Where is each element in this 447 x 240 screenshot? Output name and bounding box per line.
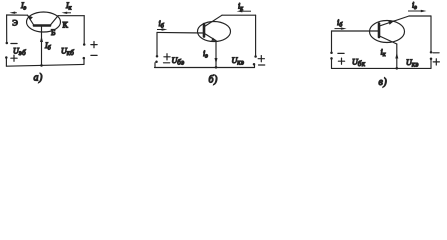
current arrow I_B (right) (335, 27, 347, 29)
wire: top collector wire (222, 14, 256, 16)
current arrow I_E (10, 12, 17, 14)
svg-text:Uбэ: Uбэ (172, 56, 185, 67)
svg-text:iб: iб (159, 19, 165, 30)
plus sign (91, 42, 97, 48)
wire: emitter lead down (215, 41, 217, 68)
terminal node (right lower) (253, 63, 256, 66)
svg-text:а): а) (34, 73, 44, 84)
current arrow I_E (above wire, pointing right) (408, 10, 427, 12)
svg-text:Б: Б (51, 28, 56, 37)
terminal node (right lower) (430, 57, 433, 60)
terminal node (left upper) (6, 42, 9, 45)
wire: top-right collector wire (58, 15, 84, 17)
terminal node (left upper) (156, 55, 159, 58)
wire: left lower stub (154, 63, 156, 68)
terminal node (left lower) (155, 61, 158, 64)
minus sign (11, 43, 17, 45)
wire: top emitter wire (409, 15, 431, 17)
minus sign (433, 52, 439, 54)
wire: left branch down (6, 15, 8, 42)
plus sign (11, 55, 17, 61)
terminal node (right upper) (83, 43, 86, 46)
svg-text:Uкб: Uкб (61, 47, 74, 58)
wire: bottom common-emitter wire (155, 67, 255, 69)
svg-text:Э: Э (12, 18, 18, 28)
minus sign (338, 52, 344, 54)
emitter diagonal with arrowhead (205, 34, 216, 41)
wire: right lower stub (430, 60, 432, 69)
plus sign (164, 54, 170, 60)
terminal node (left lower) (330, 57, 333, 60)
transistor VT (circuit b) body (198, 22, 231, 42)
svg-text:в): в) (379, 77, 388, 88)
wire: base lead down (41, 27, 43, 66)
collector diagonal (205, 15, 223, 26)
svg-text:iб: iб (337, 18, 343, 29)
wire: right branch down (255, 15, 257, 55)
svg-text:Uэб: Uэб (13, 47, 26, 58)
wire: bottom common-base wire (6, 64, 84, 66)
wire: bottom common-collector wire (332, 67, 432, 69)
svg-text:iк: iк (381, 48, 386, 59)
svg-text:Iэ: Iэ (20, 1, 27, 12)
terminal node (right upper) (430, 51, 433, 54)
collector diagonal (380, 36, 397, 44)
current arrow I_K (237, 10, 251, 12)
wire: left lower stub (331, 60, 333, 69)
current arrow I_B (right) (157, 28, 167, 30)
terminal node (left lower) (5, 56, 8, 59)
junction (emitter to bottom wire) (215, 66, 218, 69)
wire: left branch down (331, 31, 333, 52)
terminal node (right lower) (83, 57, 86, 60)
plus sign (433, 59, 439, 65)
svg-text:Uбк: Uбк (352, 58, 366, 69)
current arrow I_K (up) (395, 53, 398, 59)
svg-text:Uкэ: Uкэ (406, 58, 419, 69)
transistor VT (circuit v) body (370, 21, 405, 43)
wire: right lower stub (83, 59, 85, 64)
svg-text:К: К (63, 21, 69, 30)
svg-text:iэ: iэ (203, 49, 208, 60)
transistor VT (circuit a) body (27, 12, 61, 32)
junction (collector to bottom wire) (396, 67, 399, 70)
svg-text:Iк: Iк (65, 1, 72, 12)
svg-text:iк: iк (238, 2, 243, 13)
base bar (34, 24, 50, 27)
base bar (vertical) (378, 24, 381, 38)
wire: right branch down (83, 16, 85, 44)
current arrow I_K (62, 12, 72, 14)
minus sign (91, 54, 97, 56)
wire: collector lead down (396, 44, 398, 68)
emitter diagonal with arrowhead (380, 16, 410, 26)
wire: left branch down (156, 32, 158, 55)
base bar (vertical) (203, 24, 206, 37)
terminal node (left upper) (330, 51, 333, 54)
terminal node (right upper) (254, 55, 257, 58)
current arrow I_E (down) (215, 58, 218, 64)
svg-text:Uкэ: Uкэ (232, 56, 245, 67)
minus sign (259, 64, 265, 66)
current arrow I_B (up) (40, 36, 43, 42)
wire: top-left emitter wire (7, 14, 28, 16)
wire: right lower stub (254, 65, 256, 67)
wire: right branch down (430, 16, 432, 51)
svg-text:б): б) (209, 74, 219, 85)
collector diagonal (50, 16, 58, 26)
plus sign (258, 56, 264, 62)
wire: base input wire (157, 31, 204, 34)
svg-text:iэ: iэ (412, 1, 417, 12)
plus sign (338, 58, 344, 64)
wire: left lower stub (5, 58, 7, 66)
junction (base to bottom wire) (40, 64, 43, 67)
minus sign (164, 62, 170, 64)
emitter diagonal with arrowhead (28, 15, 35, 25)
svg-text:Iб: Iб (44, 41, 52, 52)
wire: base input wire (332, 30, 380, 32)
